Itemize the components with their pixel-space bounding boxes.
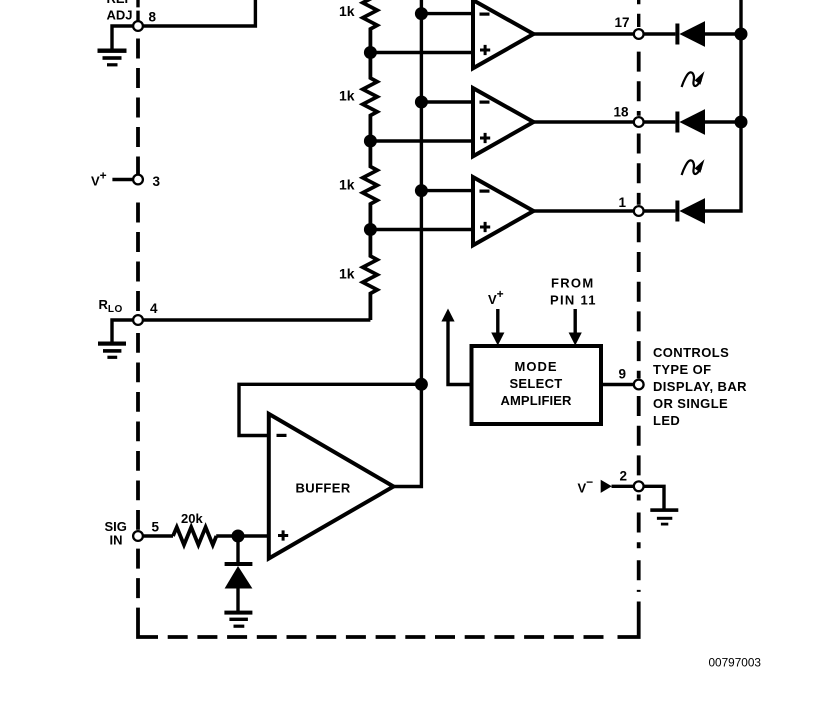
resistor chain R4 1k (363, 230, 377, 321)
LED light squiggle arrow 1 (682, 71, 705, 87)
svg-text:FROM: FROM (551, 276, 594, 291)
svg-text:4: 4 (150, 301, 158, 316)
svg-text:17: 17 (615, 15, 630, 30)
junction resistor tap 2 (364, 135, 377, 148)
svg-text:BUFFER: BUFFER (296, 481, 351, 496)
IC boundary right dashed line pin1-pin9 (637, 222, 641, 378)
pin 2 circle (634, 481, 644, 491)
wire pin8 to top (138, 0, 255, 26)
wire pin8 to ground (112, 26, 133, 49)
input clamp diode D1 (225, 562, 253, 589)
buffer plus symbol (278, 530, 288, 540)
IC boundary left dashed line pin8-pin3 (136, 39, 140, 175)
IC boundary left dashed line pin5-corner (136, 549, 140, 599)
V+ arrow into mode box (491, 309, 504, 346)
wire diode branch (236, 536, 239, 562)
wire 20k to buffer plus input (216, 534, 269, 537)
ground at pin 4 (98, 342, 126, 359)
ground at pin 2 (650, 508, 678, 525)
comparator U3 plus symbol (480, 222, 490, 232)
pin 1 circle (634, 206, 644, 216)
comparator U2 plus symbol (480, 133, 490, 143)
comparator U1 minus symbol (480, 13, 490, 16)
FROM PIN 11 arrow into mode box (569, 309, 582, 346)
wire pin17 to LED 1 (645, 32, 676, 35)
buffer op-amp (269, 414, 394, 559)
IC boundary right dashed line pin18-pin1 (637, 134, 641, 205)
comparator 1 plus input wire (370, 51, 473, 54)
wire LED 1 to rail (705, 32, 741, 35)
pin 17 circle (634, 29, 644, 39)
svg-text:20k: 20k (181, 511, 203, 526)
ground at input diode (224, 611, 252, 628)
IC boundary right dashed line pin17-pin18 (637, 52, 641, 116)
svg-text:DISPLAY, BAR: DISPLAY, BAR (653, 379, 747, 394)
buffer output wire (394, 384, 422, 486)
wire mode box to pin9 (601, 383, 633, 386)
svg-text:1: 1 (619, 195, 627, 210)
comparator 3 output wire (534, 209, 634, 212)
comparator 3 minus input wire (421, 189, 473, 192)
IC boundary right dashed line pin9-pin2 (637, 396, 641, 480)
svg-text:MODE: MODE (515, 359, 558, 374)
svg-text:REF: REF (107, 0, 133, 6)
pin 8 circle (133, 21, 143, 31)
IC boundary left dashed line pin4-pin5 (136, 333, 140, 530)
LED D17 (675, 21, 705, 47)
svg-text:1k: 1k (339, 3, 355, 19)
resistor R 20k zigzag (173, 527, 216, 545)
pin 18 circle (634, 117, 644, 127)
comparator U1 (473, 0, 534, 68)
wire pin1 to LED 3 (645, 209, 676, 212)
svg-text:IN: IN (110, 533, 123, 548)
resistor chain R2 1k (363, 53, 377, 142)
svg-text:1k: 1k (339, 265, 355, 281)
LED supply rail (705, 0, 741, 211)
LED D18 (675, 109, 705, 135)
junction resistor tap 3 (364, 223, 377, 236)
comparator 2 plus input wire (370, 139, 473, 142)
wire pin4 to ground (112, 320, 133, 342)
junction resistor tap 1 (364, 46, 377, 59)
svg-text:00797003: 00797003 (709, 655, 762, 669)
wire pin5 to 20k resistor (143, 534, 173, 537)
comparator 1 minus input wire (421, 12, 473, 15)
comparator U2 (473, 88, 534, 156)
svg-text:2: 2 (620, 469, 628, 484)
IC boundary bottom dashed line (168, 635, 611, 639)
comparator U3 minus symbol (480, 190, 490, 193)
wire pin18 to LED 2 (645, 120, 676, 123)
LED light squiggle arrow 2 (682, 159, 705, 175)
svg-text:18: 18 (614, 105, 630, 120)
pin 5 circle (133, 531, 143, 541)
comparator U1 plus symbol (480, 45, 490, 55)
svg-text:LED: LED (653, 413, 680, 428)
wire V- arrow to pin2 (612, 485, 634, 488)
IC boundary left dashed line pin3-pin4 (136, 203, 140, 315)
IC boundary left dashed line top stub (136, 0, 139, 21)
resistor chain R1 1k zigzag (cut at top) (363, 0, 377, 53)
wire diode to ground (236, 589, 239, 612)
wire mode box left to up-arrow (448, 320, 472, 385)
buffer minus symbol (277, 434, 287, 437)
comparator U2 minus symbol (480, 101, 490, 104)
comparator 3 plus input wire (370, 228, 473, 231)
svg-text:CONTROLS: CONTROLS (653, 345, 729, 360)
mode control up-arrowhead (441, 309, 454, 322)
svg-text:TYPE OF: TYPE OF (653, 362, 711, 377)
wire LED 2 to rail (705, 120, 741, 123)
V- input arrowhead (601, 480, 612, 493)
pin 4 circle (133, 315, 143, 325)
resistor chain R3 1k (363, 141, 377, 230)
svg-text:PIN 11: PIN 11 (550, 293, 597, 308)
IC boundary right dashed line pin2-corner (637, 495, 641, 592)
buffer feedback wire (minus input loop) (239, 384, 421, 435)
pin 9 circle (634, 380, 644, 390)
IC boundary bottom-right corner (618, 602, 639, 638)
comparator 1 output wire (534, 32, 634, 35)
IC boundary right dashed line top stub (637, 0, 640, 27)
wire pin3 stub (112, 178, 133, 181)
comparator U3 (473, 177, 534, 245)
junction comparator 1 minus (415, 7, 428, 20)
svg-text:9: 9 (619, 367, 627, 382)
wire pin4 to resistor chain (138, 318, 370, 321)
junction signal input node (232, 530, 245, 543)
svg-text:1k: 1k (339, 177, 355, 193)
svg-text:ADJ: ADJ (107, 8, 133, 23)
junction LED rail row 17 (735, 28, 748, 41)
LED D19 (675, 198, 705, 224)
junction buffer output node (415, 378, 428, 391)
svg-text:1k: 1k (339, 88, 355, 104)
junction LED rail row 18 (735, 116, 748, 129)
svg-text:AMPLIFIER: AMPLIFIER (501, 393, 572, 408)
svg-text:SELECT: SELECT (509, 376, 562, 391)
comparator 2 output wire (534, 120, 634, 123)
ground at pin 8 (98, 49, 127, 67)
comparator 2 minus input wire (421, 100, 473, 103)
svg-text:3: 3 (153, 174, 161, 189)
svg-text:8: 8 (149, 9, 157, 24)
svg-text:5: 5 (152, 520, 160, 535)
IC boundary bottom-left corner (138, 608, 158, 637)
junction comparator 2 minus (415, 96, 428, 109)
svg-text:OR SINGLE: OR SINGLE (653, 396, 728, 411)
pin 3 circle (133, 175, 143, 185)
signal rail to comparators (420, 0, 423, 384)
mode select amplifier block (472, 346, 602, 424)
junction comparator 3 minus (415, 184, 428, 197)
wire pin2 to ground (645, 486, 665, 508)
